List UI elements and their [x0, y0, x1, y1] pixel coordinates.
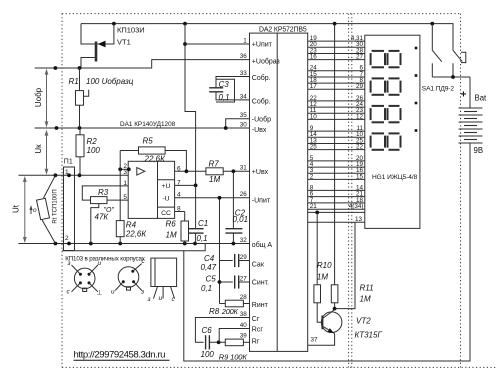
border: inner dashed partition (display section)	[349, 14, 352, 368]
svg-text:0,1: 0,1	[201, 284, 212, 293]
pin 25 / display pin 22 row	[310, 144, 364, 151]
node: feedback/pin2	[118, 167, 122, 171]
svg-text:R5: R5	[143, 137, 154, 146]
svg-text:з: з	[147, 296, 151, 303]
op-amp DA1 КР140УД1208	[128, 161, 174, 218]
svg-text:17: 17	[310, 83, 318, 90]
svg-text:2: 2	[65, 235, 69, 242]
wire: common rail (to DA2 pin 32)	[19, 243, 250, 245]
svg-text:VT2: VT2	[356, 317, 371, 326]
pin 6 / display pin 21 row	[310, 191, 364, 198]
svg-text:29: 29	[240, 254, 248, 261]
svg-text:з: з	[67, 260, 71, 267]
svg-text:Сг: Сг	[252, 316, 260, 323]
wire: thermistor top wire (to DA1 pin 3)	[19, 174, 129, 176]
resistor R2 100	[76, 128, 84, 175]
resistor R4 22,6К	[116, 221, 124, 244]
pin 9 / display pin 11 row	[310, 125, 364, 132]
thermistor Rt ТСП100П	[37, 175, 56, 243]
pin 4 / display pin 19 row	[310, 161, 364, 168]
svg-text:R6: R6	[166, 220, 177, 229]
svg-text:R4: R4	[126, 220, 137, 229]
wire: Uобраз rail (to DA2 pin 36)	[35, 60, 250, 68]
svg-text:100: 100	[201, 350, 215, 359]
node: pin7/C1 junction	[194, 184, 198, 188]
svg-text:R11: R11	[360, 284, 374, 293]
svg-text:0,1: 0,1	[219, 93, 230, 102]
wire: -Uпит riser to C4/C5/R8	[219, 198, 221, 304]
package drawing 1 (round, 4 leads)	[72, 265, 98, 292]
resistor R6 1М	[175, 212, 189, 244]
svg-text:Uобр: Uобр	[34, 87, 43, 107]
svg-text:С3: С3	[219, 80, 230, 89]
package drawing 3 (flat case)	[151, 258, 177, 299]
svg-text:+Uобраз: +Uобраз	[252, 58, 280, 66]
svg-text:Собр.: Собр.	[252, 74, 271, 82]
svg-text:Uк: Uк	[34, 144, 43, 154]
node: DA2 pin1 tap	[183, 42, 187, 46]
wire: DA1 -U to DA2 pin 26	[175, 197, 250, 199]
display digit 4	[371, 129, 418, 150]
svg-text:КТ315Г: КТ315Г	[355, 331, 383, 340]
label: heating arrow О	[29, 205, 37, 214]
svg-text:32: 32	[240, 237, 248, 244]
svg-text:R8: R8	[209, 307, 220, 316]
pin 19 / display pin 4,31 row	[310, 35, 364, 42]
pin 18 / display pin 8 row	[310, 77, 364, 84]
svg-text:и: и	[159, 295, 163, 302]
resistor R10 1М	[314, 212, 322, 322]
pin 13 / display pin 25 row	[310, 137, 364, 144]
svg-text:+: +	[461, 90, 467, 101]
wire: display pin 13 to VT2 collector	[335, 222, 355, 308]
node: rail/arrow stub	[54, 66, 58, 70]
svg-text:1М: 1М	[209, 175, 220, 184]
pin 17 / display pin 29 row	[310, 83, 364, 90]
pin 22 / display pin 26 row	[310, 95, 364, 102]
svg-text:100: 100	[87, 146, 101, 155]
svg-text:38: 38	[240, 311, 248, 318]
svg-text:0,1: 0,1	[197, 234, 208, 243]
svg-text:39: 39	[240, 332, 248, 339]
svg-text:С5: С5	[206, 275, 217, 284]
svg-text:16: 16	[310, 54, 318, 61]
node: C2 top	[232, 169, 236, 173]
svg-text:Rинт: Rинт	[252, 302, 269, 309]
svg-text:DA2 КР572ПВ5: DA2 КР572ПВ5	[259, 27, 307, 34]
node: VT1 gate/drain junction	[112, 22, 116, 26]
svg-text:3: 3	[123, 169, 127, 176]
pin 7 / display pin 18 row	[310, 197, 364, 204]
capacitor C2 0,01	[225, 171, 242, 243]
svg-text:9В: 9В	[474, 146, 484, 155]
node: R3 wiper bottom	[89, 242, 93, 246]
node: pin2 at box	[127, 167, 131, 171]
resistor R9 100К	[225, 339, 249, 346]
resistor R7 1М	[206, 168, 223, 175]
dimension arrow Ut	[12, 176, 27, 243]
svg-text:С1: С1	[198, 219, 208, 228]
svg-text:Собр.: Собр.	[252, 97, 271, 105]
svg-text:СС: СС	[161, 210, 171, 217]
svg-text:КП103 в различных корпусах: КП103 в различных корпусах	[65, 256, 145, 263]
svg-text:27: 27	[240, 275, 248, 282]
wire: DA2 pin 1	[185, 43, 250, 45]
svg-text:2: 2	[310, 173, 314, 180]
svg-text:34: 34	[240, 93, 248, 100]
svg-text:22: 22	[356, 144, 364, 151]
svg-text:22,6К: 22,6К	[125, 229, 148, 238]
pin 11 / display pin 23 row	[310, 107, 364, 114]
switch SA1 ПД9-2	[432, 24, 470, 77]
svg-text:40: 40	[240, 322, 248, 329]
node: thermistor top	[54, 173, 58, 177]
wire: +U riser from top rail to DA1 pin 7	[185, 24, 196, 186]
svg-text:Rсг: Rсг	[252, 327, 264, 334]
svg-text:12: 12	[356, 113, 364, 120]
svg-text:http://299792458.3dn.ru: http://299792458.3dn.ru	[74, 350, 166, 361]
svg-text:35: 35	[240, 112, 248, 119]
svg-text:+Uвх: +Uвх	[252, 169, 269, 176]
svg-text:о: о	[33, 207, 37, 214]
svg-text:Сак: Сак	[252, 262, 265, 269]
svg-text:П1: П1	[64, 159, 73, 166]
node: +U riser junction	[183, 22, 187, 26]
svg-text:Rг: Rг	[252, 339, 260, 346]
pin 12 / display pin 24 row	[310, 101, 364, 108]
svg-text:-Uвх: -Uвх	[252, 127, 267, 134]
node: R5 feedback tap	[185, 169, 189, 173]
capacitor C4 0,47	[220, 254, 250, 267]
svg-text:1М: 1М	[317, 273, 328, 282]
svg-text:общ А: общ А	[252, 241, 273, 249]
dimension arrow Uк	[34, 130, 48, 175]
node: C5 tap	[218, 280, 222, 284]
node: R10 tap on pin 21 row	[315, 211, 319, 215]
svg-text:Rt ТСП100П: Rt ТСП100П	[53, 189, 59, 223]
svg-text:R3: R3	[98, 188, 109, 197]
wires: DA2 to display pin rows	[308, 41, 365, 222]
svg-text:100 Uобразц: 100 Uобразц	[86, 77, 134, 86]
node: C2 bottom	[232, 242, 236, 246]
node: riser at pin26 wire	[218, 196, 222, 200]
wire: DA1 pin 2 stub	[120, 168, 128, 170]
pin 24 / display pin 6 row	[310, 65, 364, 72]
svg-text:R7: R7	[209, 159, 220, 168]
svg-text:26: 26	[240, 191, 248, 198]
svg-text:SA1 ПД9-2: SA1 ПД9-2	[422, 86, 455, 93]
package drawing 2 (round, 3 leads)	[115, 264, 141, 291]
svg-text:28: 28	[240, 294, 248, 301]
svg-text:1М: 1М	[360, 295, 371, 304]
node: П1 pin 2	[67, 242, 71, 246]
node: C6/R9/pin40 junction	[217, 340, 221, 344]
svg-text:25: 25	[310, 144, 318, 151]
node: C1 bottom	[193, 242, 197, 246]
svg-text:1: 1	[65, 169, 69, 176]
resistor R8 200К	[220, 300, 250, 307]
wire: DA1 out to DA2 pin 31	[175, 170, 250, 172]
svg-text:15: 15	[356, 173, 364, 180]
IC DA2 КР572ПВ5	[250, 33, 308, 351]
wire: DA1 pin 1 to R3 left	[82, 186, 128, 200]
svg-text:10: 10	[310, 113, 318, 120]
capacitor C5 0,1	[220, 275, 250, 288]
svg-text:DA1 КР140УД1208: DA1 КР140УД1208	[120, 121, 176, 128]
pin 16 / display pin 27 row	[310, 54, 364, 61]
svg-text:30: 30	[240, 121, 248, 128]
svg-text:0,01: 0,01	[233, 215, 249, 224]
svg-text:R10: R10	[317, 261, 332, 270]
capacitor C6 100	[206, 335, 226, 349]
node: R11/collector junction	[333, 307, 337, 311]
svg-text:31: 31	[240, 165, 248, 172]
svg-text:и: и	[111, 289, 115, 296]
battery Bat 9В	[459, 77, 483, 159]
svg-text:29: 29	[356, 83, 364, 90]
svg-text:R1: R1	[69, 77, 79, 86]
pin 21 / display pins 4(34) row	[310, 203, 364, 210]
svg-text:200К: 200К	[221, 307, 239, 316]
display digit 2	[371, 74, 418, 95]
wire: top positive supply rail	[81, 24, 453, 51]
wire: middle rail (to DA2 pins 30/35)	[35, 119, 250, 128]
display НГ1 ИЖЦ5-4/8	[365, 35, 420, 228]
wire: DA2 pin 40 (Rсг) jog	[219, 329, 249, 343]
display digit 3	[371, 102, 418, 123]
svg-text:37: 37	[311, 337, 319, 344]
svg-text:4(34): 4(34)	[349, 203, 364, 210]
capacitor C1 0,1	[188, 185, 204, 243]
pin 3 / display pin 16 row	[310, 167, 364, 174]
svg-text:22,6К: 22,6К	[144, 154, 167, 163]
wire: inverting input riser (R5 left / pin2 / R4)	[119, 151, 121, 221]
svg-text:HG1 ИЖЦ5-4/8: HG1 ИЖЦ5-4/8	[372, 174, 418, 181]
svg-text:R2: R2	[87, 137, 98, 146]
wire: DA1 pin 5 to R3 right	[107, 199, 128, 201]
svg-text:⊥: ⊥	[97, 290, 103, 297]
svg-text:VT1: VT1	[117, 38, 131, 47]
svg-text:36: 36	[240, 53, 248, 60]
svg-text:47К: 47К	[95, 213, 110, 222]
connector П1	[64, 167, 75, 251]
svg-text:С6: С6	[202, 326, 213, 335]
svg-text:Синт.: Синт.	[252, 279, 269, 286]
svg-text:33: 33	[240, 70, 248, 77]
node: R4 bottom	[118, 242, 122, 246]
node: R2 bottom	[78, 173, 82, 177]
pin 14 / display pin 10 row	[310, 131, 364, 138]
pin 23 / display pin 28 row	[310, 47, 364, 54]
node: thermistor bottom	[54, 242, 58, 246]
svg-text:КП103И: КП103И	[117, 26, 145, 35]
node: R11 top junction	[333, 22, 337, 26]
display digit 1	[371, 47, 418, 68]
svg-text:0,47: 0,47	[201, 263, 217, 272]
resistor R1 100 (trimmed)	[76, 68, 89, 128]
node: П1 pin 1	[67, 173, 71, 177]
resistor R11 1М	[331, 24, 338, 309]
dimension arrow Uобр	[34, 69, 48, 128]
svg-text:R9 100К: R9 100К	[219, 352, 248, 361]
wire: DA2 pin 38 (Сг) to C6	[195, 318, 249, 343]
pin 5 / display pin 20 row	[310, 155, 364, 162]
node: SA1 pole junction	[430, 22, 434, 26]
pin 10 / display pin 12 row	[310, 113, 364, 120]
svg-text:13: 13	[355, 216, 363, 223]
label: site URL	[74, 350, 170, 361]
wire: DA1 pin 7 stub	[175, 184, 196, 186]
svg-text:+U: +U	[162, 183, 171, 190]
transistor VT1 КП103И (p-channel JFET)	[81, 24, 114, 68]
transistor VT2 КТ315Г	[308, 310, 342, 346]
svg-text:1: 1	[243, 37, 247, 44]
capacitor C3 0,1	[209, 77, 249, 103]
svg-text:21: 21	[310, 203, 318, 210]
node: SA1 common	[451, 75, 455, 79]
node: R1/R2 junction	[78, 126, 82, 130]
svg-text:1М: 1М	[166, 231, 177, 240]
svg-text:Ut: Ut	[12, 204, 21, 213]
resistor R5 22,6К (feedback)	[120, 147, 186, 171]
node: middle rail stub	[55, 126, 59, 130]
svg-text:Bat: Bat	[475, 94, 488, 103]
pin 20 / display pin 30 row	[310, 41, 364, 48]
svg-text:з: з	[140, 289, 144, 296]
svg-text:С4: С4	[204, 254, 215, 263]
svg-text:и: и	[98, 260, 102, 267]
node: R6 bottom	[183, 242, 187, 246]
pin 2 / display pin 15 row	[310, 173, 364, 180]
svg-text:27: 27	[356, 54, 364, 61]
node: VT1 source / R1 top	[78, 66, 82, 70]
svg-text:-U: -U	[162, 195, 169, 202]
pin 8 / display pin 14 row	[310, 184, 364, 191]
wire: battery minus return rail	[62, 152, 470, 362]
svg-text:+Uпит: +Uпит	[252, 42, 273, 49]
pin 15 / display pin 7 row	[310, 71, 364, 78]
potentiometer R3 47К	[91, 197, 108, 244]
node: pin35 jog junction	[224, 126, 228, 130]
svg-text:-Uпит: -Uпит	[252, 198, 271, 205]
svg-text:-Uобр: -Uобр	[252, 116, 271, 124]
